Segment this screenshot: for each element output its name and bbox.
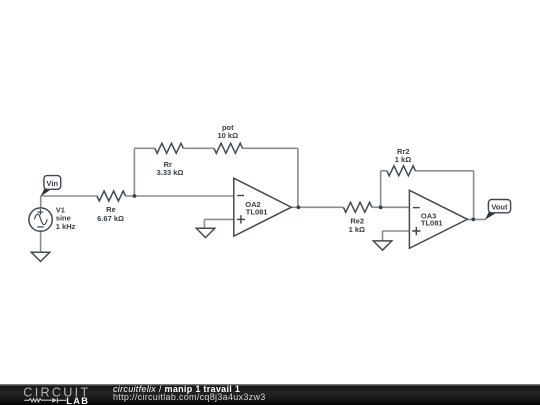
svg-text:1 kΩ: 1 kΩ (395, 155, 411, 164)
svg-text:Vout: Vout (491, 202, 508, 211)
svg-text:3.33 kΩ: 3.33 kΩ (157, 168, 184, 177)
svg-text:1 kΩ: 1 kΩ (349, 225, 365, 234)
svg-text:6.67 kΩ: 6.67 kΩ (97, 214, 124, 223)
svg-text:http://circuitlab.com/cq8j3a4u: http://circuitlab.com/cq8j3a4ux3zw3 (113, 392, 266, 402)
svg-text:Re2: Re2 (350, 216, 364, 225)
svg-text:10 kΩ: 10 kΩ (217, 131, 238, 140)
svg-text:TL081: TL081 (246, 207, 268, 216)
svg-text:Vin: Vin (47, 179, 59, 188)
svg-text:TL081: TL081 (421, 218, 443, 227)
svg-text:LAB: LAB (66, 396, 89, 405)
svg-text:1 kHz: 1 kHz (56, 222, 76, 231)
svg-text:Re: Re (106, 205, 116, 214)
